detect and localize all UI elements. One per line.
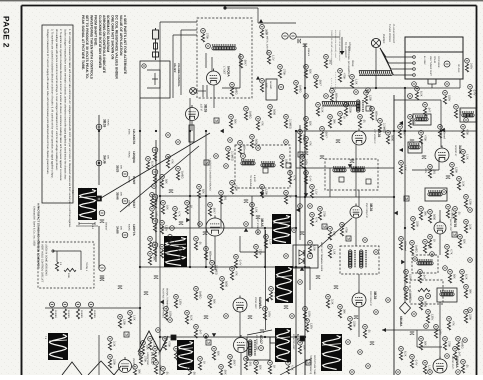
circled ref row 3 <box>76 302 81 307</box>
cluster 37 ref <box>450 163 455 168</box>
svg-text:470K: 470K <box>342 73 345 79</box>
cluster 53 ref <box>269 287 274 292</box>
cluster 122 ref <box>161 367 166 372</box>
junction 18 <box>205 336 207 338</box>
component cluster resistor <box>201 34 204 42</box>
svg-text:3BZ6: 3BZ6 <box>204 104 208 112</box>
coil vert osc core <box>255 340 256 356</box>
tube 3BZ6 2nd video IF <box>350 204 362 219</box>
svg-text:12BY7A: 12BY7A <box>132 224 136 236</box>
wire jack to tube <box>196 90 206 92</box>
ref below photo <box>99 210 105 216</box>
svg-text:TO FILAMENT: TO FILAMENT <box>344 42 347 58</box>
cluster 113 resistor <box>254 366 257 374</box>
cluster 43 ref <box>404 287 409 292</box>
svg-text:1.1V: 1.1V <box>314 189 317 195</box>
cluster 134 resistor <box>234 260 237 268</box>
svg-text:M: M <box>215 119 218 123</box>
svg-text:39K: 39K <box>152 256 155 261</box>
svg-text:3DT6: 3DT6 <box>453 219 457 227</box>
bus y228 <box>160 227 296 229</box>
cluster 154 ref <box>294 81 299 86</box>
cluster 65 resistor <box>326 300 329 308</box>
capacitor 12 <box>446 176 450 179</box>
junction 30 <box>295 195 297 197</box>
fusible resistor box <box>189 125 194 142</box>
jack J1 cross <box>191 89 196 94</box>
coil T2b <box>359 250 363 268</box>
cluster 94 resistor <box>464 315 467 323</box>
ref mark 23 <box>168 318 173 323</box>
wire diag bottom <box>280 358 312 375</box>
junction 6 <box>159 195 161 197</box>
cluster 148 ref <box>344 103 349 108</box>
svg-text:PAGE 2: PAGE 2 <box>2 16 11 48</box>
cluster 104 resistor <box>404 275 407 283</box>
svg-text:6AW8A: 6AW8A <box>258 297 262 309</box>
cluster 137 resistor <box>280 160 283 168</box>
cluster 58 ref <box>198 357 203 362</box>
svg-text:3AU6: 3AU6 <box>103 155 107 164</box>
svg-text:79VAC: 79VAC <box>128 151 131 158</box>
arrow up 1 <box>259 19 263 23</box>
resistor 39MEG 2 <box>63 309 66 319</box>
junction 10 <box>295 227 297 229</box>
cluster 23 ref <box>164 307 169 312</box>
heater bus vertical left <box>98 115 100 185</box>
ref in box <box>241 154 246 159</box>
cluster 109 resistor <box>443 342 446 350</box>
svg-text:3BA5: 3BA5 <box>260 218 264 227</box>
cluster 142 ref <box>324 55 329 60</box>
cluster 102 resistor <box>460 275 463 283</box>
ref in audio box <box>426 294 431 299</box>
wire stub 39 <box>213 98 215 108</box>
heater node 3AU6 col2 <box>122 232 128 238</box>
svg-text:6AW8A: 6AW8A <box>455 356 459 368</box>
capacitor 15 <box>334 286 338 289</box>
wire stub 30 <box>439 302 441 320</box>
junction 12 <box>205 266 207 268</box>
svg-text:39K: 39K <box>137 369 140 374</box>
waveform photo W7 <box>321 334 342 371</box>
svg-text:56K: 56K <box>212 299 215 304</box>
svg-text:270K: 270K <box>205 33 208 39</box>
svg-text:3.3K: 3.3K <box>461 181 464 187</box>
ref near module <box>278 84 283 89</box>
svg-text:-2.4V: -2.4V <box>414 359 417 366</box>
tick under photo <box>76 225 98 227</box>
boxed letter mark 9 <box>124 332 129 337</box>
svg-text:10K: 10K <box>264 83 267 88</box>
cluster 27 ref <box>310 185 315 190</box>
cluster 117 resistor <box>128 316 131 324</box>
wire stub 12 <box>296 130 394 132</box>
cluster 118 ref <box>118 315 123 320</box>
cluster 143 resistor <box>338 74 341 82</box>
capacitor 16 <box>354 316 358 319</box>
wire to filament tap <box>296 36 340 38</box>
ref mark 6 <box>304 94 309 99</box>
cluster 87 ref <box>398 125 403 130</box>
wire stub 28 <box>438 158 440 170</box>
svg-text:AUDIO DET: AUDIO DET <box>449 219 452 232</box>
cluster 23 resistor <box>164 312 167 320</box>
jack J1 <box>190 88 197 95</box>
svg-text:.001: .001 <box>328 59 331 65</box>
svg-text:10K: 10K <box>332 231 335 236</box>
cluster 80 resistor <box>468 90 471 98</box>
resistor 33K in box <box>418 288 430 291</box>
capacitor 17 <box>370 342 374 345</box>
quad coil core <box>417 259 433 260</box>
cluster 117 ref <box>128 311 133 316</box>
junction 2 <box>155 130 157 132</box>
svg-text:5AQ5A: 5AQ5A <box>227 66 231 77</box>
svg-text:.0047: .0047 <box>318 79 321 86</box>
svg-text:380mmf: 380mmf <box>105 222 108 231</box>
bus y267 <box>160 266 310 268</box>
sound IF transformer coil <box>212 46 236 50</box>
cluster 46 resistor <box>456 342 459 350</box>
cluster 40 ref <box>411 217 416 222</box>
heater resistor <box>153 224 156 232</box>
cluster 140 resistor <box>304 70 307 78</box>
cluster 52 ref <box>263 307 268 312</box>
svg-text:RF AGC: RF AGC <box>457 64 460 73</box>
cluster 77 ref <box>443 91 448 96</box>
cluster 54 resistor <box>148 342 151 350</box>
svg-text:1.5K: 1.5K <box>354 79 357 85</box>
svg-text:.001: .001 <box>248 361 251 367</box>
svg-text:1.1V: 1.1V <box>152 341 155 347</box>
svg-text:ADDITIONAL SCHEMATICS: ADDITIONAL SCHEMATICS <box>347 46 350 77</box>
cluster 64 resistor <box>308 246 311 254</box>
cluster 135 resistor <box>264 240 267 248</box>
cluster 86 resistor <box>458 240 461 248</box>
boxed letter <box>263 168 268 173</box>
phono jack <box>371 38 380 47</box>
ref mark 36 <box>284 254 289 259</box>
capacitor 25 <box>260 330 264 333</box>
svg-text:.047: .047 <box>172 239 175 245</box>
svg-text:4.7K: 4.7K <box>178 351 181 357</box>
svg-text:39 MEG: 39 MEG <box>67 310 70 318</box>
svg-text:470K: 470K <box>344 227 347 233</box>
svg-text:470K: 470K <box>423 135 426 141</box>
svg-text:47K: 47K <box>427 244 430 249</box>
wire stub 31 <box>439 320 441 359</box>
svg-text:270K: 270K <box>322 211 325 217</box>
svg-text:47K: 47K <box>260 121 263 126</box>
svg-text:39 MEG: 39 MEG <box>80 310 83 318</box>
svg-text:USED IN SOME VERSIONS: USED IN SOME VERSIONS <box>45 244 48 276</box>
cluster 34 ref <box>408 115 413 120</box>
svg-text:82K: 82K <box>216 351 219 356</box>
capacitor 11 <box>422 156 426 159</box>
cluster 135 ref <box>264 235 269 240</box>
svg-text:4.7K: 4.7K <box>292 175 295 181</box>
cluster 111 resistor <box>286 366 289 374</box>
wire stub 19 <box>355 218 357 246</box>
cluster 84 ref <box>445 245 450 250</box>
cluster 86 ref <box>458 235 463 240</box>
circled ref row 1 <box>50 302 55 307</box>
svg-text:150V: 150V <box>447 95 450 101</box>
sound section dashed box <box>197 18 252 98</box>
cluster 10 ref <box>260 185 265 190</box>
svg-text:1MEG: 1MEG <box>248 111 251 119</box>
arrowhead 1 <box>220 129 224 133</box>
junction 33 <box>139 266 141 268</box>
cluster 137 ref <box>280 155 285 160</box>
sound coil box 3 <box>460 108 476 122</box>
junction 1 <box>139 130 141 132</box>
wire step right <box>417 346 442 348</box>
border top <box>22 5 477 7</box>
cluster 106 ref <box>434 325 439 330</box>
cluster 26 ref <box>304 171 309 176</box>
wire stub 14 <box>98 335 100 375</box>
boxed letter5 <box>366 106 371 111</box>
cluster 90 ref <box>461 150 466 155</box>
wire into box <box>160 21 197 23</box>
cluster 77 resistor <box>443 96 446 104</box>
tuner pin 3 <box>413 68 416 71</box>
cluster 121 ref <box>108 355 113 360</box>
cluster 25 resistor <box>300 160 303 168</box>
tuner pin 4 <box>413 74 416 77</box>
wire tube pin a <box>202 85 204 97</box>
wire stub 20 <box>358 274 360 293</box>
cluster 5 ref <box>197 185 202 190</box>
cluster 121 resistor <box>108 360 111 368</box>
cluster 24 ref <box>174 295 179 300</box>
svg-text:M: M <box>323 225 326 229</box>
svg-text:1MEG: 1MEG <box>198 291 201 299</box>
component cluster ref <box>141 341 146 346</box>
wire stub 35 <box>191 121 193 131</box>
svg-text:FOR VIEW: FOR VIEW <box>437 56 440 68</box>
svg-text:.01: .01 <box>465 364 468 368</box>
cluster 6 ref <box>208 203 213 208</box>
cluster 153 ref <box>304 137 309 142</box>
svg-text:SOUND IF: SOUND IF <box>454 145 457 157</box>
scale bracket <box>79 222 95 225</box>
capacitor 8 <box>336 140 340 143</box>
svg-text:150V: 150V <box>182 251 185 257</box>
cluster 78 ref <box>454 105 459 110</box>
cluster 147 resistor <box>328 120 331 128</box>
arrowhead 7 <box>212 333 216 337</box>
tuner ref M <box>444 61 450 67</box>
cluster 51 resistor <box>305 324 308 332</box>
svg-text:1.5K: 1.5K <box>132 315 135 321</box>
svg-text:M: M <box>98 197 101 201</box>
cluster 64 ref <box>308 241 313 246</box>
cluster 128 resistor <box>160 180 163 188</box>
cluster 97 resistor <box>446 210 449 218</box>
sound takeoff dashed box <box>340 246 379 274</box>
cluster 129 resistor <box>146 162 149 170</box>
svg-text:6BU8A: 6BU8A <box>399 316 403 327</box>
resistor 39MEG 3 <box>76 309 79 319</box>
component cluster ref <box>230 83 235 88</box>
svg-text:PLUG & SOCKET: PLUG & SOCKET <box>392 24 395 44</box>
wire stub 38 <box>213 85 215 98</box>
junction 9 <box>264 227 266 229</box>
capacitor heater <box>100 276 104 279</box>
boxed letter mark 8 <box>306 360 311 365</box>
cluster 119 ref <box>108 337 113 342</box>
cluster 72 resistor <box>256 122 259 130</box>
svg-text:2.2MEG: 2.2MEG <box>450 209 453 219</box>
svg-text:B+ 135V: B+ 135V <box>423 56 426 65</box>
coil L2 core <box>261 161 275 162</box>
ref quad <box>413 257 417 261</box>
coil audio <box>428 192 442 196</box>
cluster 4 resistor <box>185 206 188 214</box>
ref mark 5 <box>284 140 289 145</box>
svg-text:M: M <box>453 233 456 237</box>
sound coil box 2 <box>408 142 422 153</box>
svg-text:79VAC: 79VAC <box>107 119 110 126</box>
svg-text:TUNER POWER: TUNER POWER <box>388 24 391 42</box>
cluster 152 resistor <box>386 136 389 144</box>
photo box letter <box>270 337 276 343</box>
boxed letter4 <box>366 179 371 184</box>
svg-text:1K: 1K <box>342 116 345 119</box>
cluster 66 resistor <box>338 310 341 318</box>
svg-text:82K: 82K <box>258 365 261 370</box>
svg-text:56K: 56K <box>423 341 426 346</box>
terminal <box>52 250 54 252</box>
ref mark 41 <box>374 310 379 315</box>
cluster 52 resistor <box>263 312 266 320</box>
twin lead ribbon A <box>359 71 392 76</box>
boxed letter mark 5 <box>404 196 409 201</box>
svg-text:-2.4V: -2.4V <box>308 175 311 182</box>
svg-text:3BZ6: 3BZ6 <box>373 291 377 299</box>
wire stub 25 <box>240 353 242 375</box>
svg-text:1.1V: 1.1V <box>271 55 274 61</box>
capacitor 5 <box>256 216 260 219</box>
diode 2 <box>299 258 304 264</box>
cluster 90 resistor <box>461 155 464 163</box>
coil T2a core <box>355 250 356 268</box>
cluster 118 resistor <box>118 320 121 328</box>
component cluster ref <box>239 55 244 60</box>
svg-text:.0047: .0047 <box>243 59 246 66</box>
cluster 59 ref <box>212 347 217 352</box>
bus y337 <box>160 336 296 338</box>
bus y88 <box>330 87 460 89</box>
svg-text:3.3K: 3.3K <box>152 241 155 247</box>
cluster 120 resistor <box>133 370 136 378</box>
coil sound 3 <box>462 113 474 117</box>
svg-text:1MEG: 1MEG <box>298 85 301 93</box>
ref mark 33 <box>430 252 435 257</box>
tube 3DT6 audio det <box>434 220 446 235</box>
cluster 107 ref <box>410 355 415 360</box>
wire right panel top <box>394 99 441 101</box>
cluster 93 ref <box>464 285 469 290</box>
cluster 151 ref <box>378 119 383 124</box>
tuner right drop <box>459 79 461 88</box>
svg-text:3.3K: 3.3K <box>330 299 333 305</box>
svg-text:120V: 120V <box>424 168 427 174</box>
cluster 103 resistor <box>418 275 421 283</box>
svg-text:.047: .047 <box>457 351 460 357</box>
svg-text:2. To upstate see crystal in c: 2. To upstate see crystal in clockwise d… <box>59 29 62 181</box>
svg-text:120K: 120K <box>122 319 125 325</box>
heater node 12LX4GTA <box>152 147 158 153</box>
svg-text:.01: .01 <box>367 329 370 333</box>
junction 32 <box>98 162 100 164</box>
ref mark 25 <box>204 334 209 339</box>
quad coil dashed box <box>412 255 438 273</box>
ref mark 8 <box>354 90 359 95</box>
svg-text:.0047: .0047 <box>232 359 235 366</box>
cluster 61 resistor <box>188 372 191 380</box>
cluster 7 ref <box>219 191 224 196</box>
svg-text:OF PICTURE TUBE: OF PICTURE TUBE <box>313 355 316 375</box>
cluster 36 resistor <box>399 166 402 174</box>
svg-text:220K: 220K <box>415 221 418 227</box>
svg-text:.001: .001 <box>223 195 226 201</box>
wire bracket down <box>431 84 433 88</box>
cluster 149 resistor <box>358 120 361 128</box>
IF transformer dashed box <box>325 159 378 190</box>
main bus x305 <box>304 44 306 375</box>
sound coil box 1 <box>413 114 431 125</box>
svg-text:5600: 5600 <box>390 135 393 141</box>
ref right panel <box>408 94 413 99</box>
svg-text:M: M <box>307 361 310 365</box>
heater node 3BZ6 <box>96 124 102 130</box>
cluster 96 ref <box>438 125 443 130</box>
ref mark 46 <box>456 370 461 375</box>
cluster 42 resistor <box>399 242 402 250</box>
svg-text:56K: 56K <box>452 274 455 279</box>
cluster 6 resistor <box>208 208 211 216</box>
ref sound IF <box>206 44 211 49</box>
svg-text:47K: 47K <box>234 271 237 276</box>
cluster 36 ref <box>399 161 404 166</box>
svg-text:1. DC voltage measurements tak: 1. DC voltage measurements taken with va… <box>68 29 71 228</box>
svg-text:39K: 39K <box>332 119 335 124</box>
tuner pin 2 <box>413 62 416 65</box>
cluster 21 ref <box>185 311 190 316</box>
tube 3AU6 sound IF <box>435 146 449 163</box>
component cluster ref <box>260 25 265 30</box>
cluster 104 ref <box>404 270 409 275</box>
arrowhead 3 <box>244 228 248 232</box>
cluster 152 ref <box>386 131 391 136</box>
cluster 125 ref <box>250 135 255 140</box>
cluster 42 ref <box>399 237 404 242</box>
cluster 116 ref <box>163 337 168 342</box>
main divider x394 <box>393 95 395 375</box>
heater node 3AU6 <box>96 160 102 166</box>
cluster 119 resistor <box>108 342 111 350</box>
cluster 102 ref <box>460 270 465 275</box>
ref coil box <box>259 346 264 351</box>
svg-text:SYNC SEP: SYNC SEP <box>254 297 257 309</box>
boxed letter mark 4 <box>346 236 351 241</box>
svg-text:245V: 245V <box>267 311 270 317</box>
peaking coil <box>356 100 360 112</box>
